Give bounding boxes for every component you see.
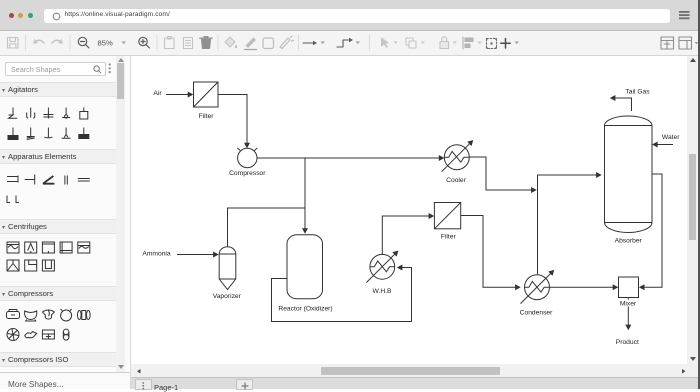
svg-text:Compressor: Compressor bbox=[229, 170, 266, 177]
paint bucket icon bbox=[225, 37, 237, 48]
browser chrome bar bbox=[0, 0, 700, 31]
panel toggle icon 1 bbox=[661, 37, 674, 49]
align icon bbox=[463, 37, 473, 49]
centrifuge 6 bbox=[7, 260, 19, 271]
panel toggle icon 2 bbox=[679, 37, 692, 49]
sidebar shapes panel bbox=[0, 56, 131, 389]
plus icon bbox=[501, 39, 510, 49]
heat exchanger WHB bbox=[366, 251, 398, 283]
apparatus element 1 bbox=[7, 176, 18, 183]
separator bbox=[156, 35, 158, 50]
wire Filter2 to Condenser bbox=[461, 216, 521, 291]
separator bbox=[69, 35, 71, 50]
svg-text:Filter: Filter bbox=[199, 113, 215, 120]
svg-text:Reactor (Oxidizer): Reactor (Oxidizer) bbox=[278, 306, 332, 313]
document icon bbox=[184, 38, 193, 49]
compressor shape 6 bbox=[7, 329, 19, 341]
condenser bbox=[521, 270, 555, 304]
canvas horizontal scrollbar bbox=[131, 364, 699, 377]
trash icon bbox=[200, 37, 212, 49]
wire Filter to Compressor bbox=[218, 95, 250, 149]
apparatus element 2 bbox=[25, 175, 35, 185]
svg-text:Mixer: Mixer bbox=[620, 301, 637, 308]
agitator shape 6 bbox=[8, 128, 18, 140]
fit to window icon bbox=[486, 38, 497, 49]
centrifuge 2 bbox=[25, 242, 37, 253]
apparatus element 6 bbox=[7, 196, 19, 203]
svg-text:85%: 85% bbox=[98, 38, 113, 47]
cooler bbox=[442, 140, 474, 172]
save icon bbox=[8, 38, 19, 49]
svg-text:Ammonia: Ammonia bbox=[142, 251, 171, 258]
clipboard icon bbox=[165, 37, 175, 49]
svg-text:Filter: Filter bbox=[441, 234, 457, 241]
centrifuge 3 bbox=[42, 242, 54, 253]
undo arrow bbox=[34, 40, 44, 43]
filter F1 bbox=[194, 82, 219, 107]
svg-text:Absorber: Absorber bbox=[615, 238, 643, 245]
tab bar bbox=[131, 377, 700, 389]
pencil icon bbox=[245, 38, 257, 50]
section header Compressors ISO bbox=[0, 352, 116, 367]
centrifuge 8 bbox=[42, 260, 54, 271]
agitator shape 5 bbox=[80, 108, 88, 120]
url bar bbox=[44, 9, 670, 22]
svg-text:Product: Product bbox=[616, 339, 639, 346]
absorber column bbox=[605, 116, 653, 233]
agitator shape 8 bbox=[44, 128, 52, 138]
wire Absorber to Mixer bbox=[639, 174, 662, 290]
apparatus element 3 bbox=[43, 176, 55, 184]
wire Vaporizer to reactor feed bbox=[228, 208, 306, 246]
redo arrow bbox=[52, 40, 62, 43]
wire Compressor to Cooler bbox=[257, 155, 445, 161]
wire Ammonia to Vaporizer bbox=[177, 252, 219, 258]
section header Apparatus Elements bbox=[0, 149, 116, 164]
svg-text:Cooler: Cooler bbox=[446, 177, 466, 184]
wire Air to Filter bbox=[166, 92, 193, 98]
compressor shape 7 bbox=[25, 332, 37, 338]
zoom out magnifier bbox=[78, 37, 89, 48]
separator bbox=[369, 35, 371, 50]
zoom in magnifier bbox=[139, 37, 150, 48]
compressor shape 8 bbox=[42, 330, 54, 339]
svg-text:Condenser: Condenser bbox=[520, 309, 553, 316]
compressor bbox=[237, 148, 257, 168]
reactor vessel bbox=[287, 235, 323, 299]
compressor shape 1 bbox=[7, 310, 20, 319]
wire Condenser to Mixer bbox=[550, 284, 619, 290]
wire Cooler to absorber line bbox=[469, 157, 537, 193]
agitator shape 4 bbox=[62, 108, 70, 119]
wire Water inlet bbox=[652, 142, 673, 148]
toolbar bbox=[0, 31, 700, 56]
wire Reactor to WHB bbox=[272, 265, 412, 322]
agitator shape 10 bbox=[79, 128, 89, 139]
window button yellow bbox=[18, 13, 23, 18]
centrifuge 4 bbox=[60, 242, 72, 253]
centrifuge 1 bbox=[7, 242, 19, 253]
window button green bbox=[28, 13, 33, 18]
compressor shape 9 bbox=[63, 329, 69, 340]
section header Compressors bbox=[0, 286, 116, 301]
shape outline icon bbox=[263, 38, 274, 49]
elbow connector icon bbox=[337, 38, 353, 47]
hamburger menu bbox=[679, 11, 690, 20]
group shapes icon bbox=[406, 38, 416, 48]
page tab handle bbox=[135, 379, 152, 390]
canvas vertical scrollbar bbox=[687, 56, 699, 364]
wire WHB to Filter2 bbox=[382, 213, 434, 254]
separator bbox=[217, 35, 219, 50]
wire to Absorber and down to Condenser bbox=[538, 172, 602, 274]
svg-text:Tail Gas: Tail Gas bbox=[625, 89, 650, 96]
panel menu dots bbox=[108, 63, 112, 74]
shape palette icons bbox=[0, 56, 116, 373]
canvas with diagram bbox=[131, 56, 687, 364]
svg-text:Air: Air bbox=[153, 90, 162, 97]
filter F2 bbox=[434, 203, 460, 229]
agitator shape 2 bbox=[27, 108, 35, 119]
apparatus element 4 bbox=[65, 176, 67, 185]
caret bbox=[122, 42, 127, 45]
section header Agitators bbox=[0, 82, 116, 97]
separator bbox=[298, 35, 300, 50]
add page button bbox=[236, 379, 253, 390]
wire branch down to Reactor bbox=[302, 158, 308, 234]
search box bbox=[5, 62, 106, 77]
section header Centrifuges bbox=[0, 219, 116, 234]
lock icon bbox=[440, 37, 449, 49]
vaporizer bbox=[219, 247, 236, 290]
wire Tail Gas bbox=[610, 95, 632, 111]
compressor shape 5 bbox=[78, 311, 91, 320]
svg-text:Water: Water bbox=[662, 134, 680, 141]
page tab label bbox=[154, 383, 178, 392]
agitator shape 9 bbox=[62, 128, 71, 139]
apparatus element 5 bbox=[78, 179, 90, 182]
svg-text:Vaporizer: Vaporizer bbox=[213, 293, 242, 300]
label Mixer bbox=[616, 300, 640, 308]
centrifuge 5 bbox=[78, 242, 90, 253]
more shapes footer bbox=[0, 372, 130, 389]
mixer bbox=[619, 277, 639, 298]
compressor shape 3 bbox=[42, 310, 54, 319]
compressor shape 2 bbox=[25, 311, 37, 321]
agitator shape 7 bbox=[27, 128, 35, 140]
brush icon bbox=[280, 36, 294, 49]
cursor tool icon bbox=[381, 37, 389, 48]
separator bbox=[25, 35, 27, 50]
centrifuge 7 bbox=[25, 260, 37, 271]
straight connector icon bbox=[303, 41, 317, 45]
sidebar scrollbar bbox=[116, 56, 125, 372]
svg-text:W.H.B: W.H.B bbox=[373, 288, 392, 295]
agitator shape 3 bbox=[43, 108, 53, 119]
window button red bbox=[9, 13, 14, 18]
compressor shape 4 bbox=[61, 309, 72, 321]
agitator shape 1 bbox=[9, 108, 18, 119]
right window edge bbox=[698, 0, 700, 389]
wire Mixer to Product bbox=[625, 298, 631, 331]
